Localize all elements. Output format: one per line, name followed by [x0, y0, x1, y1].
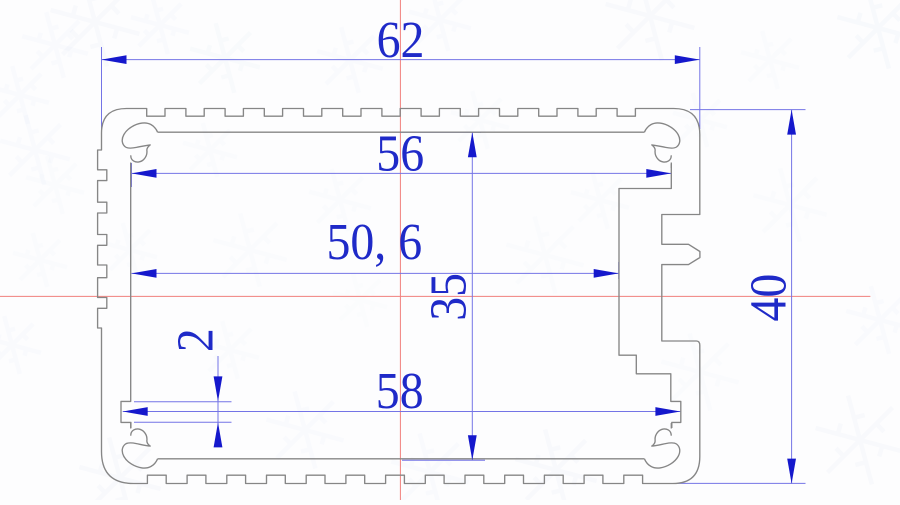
- screw boss bottom-left: [122, 423, 157, 468]
- arrow 40 top: [787, 110, 796, 135]
- arrow 2 top: [214, 376, 223, 401]
- arrow 58 right: [655, 407, 680, 416]
- profile inner walls, PCB slots and wall steps: [121, 132, 681, 459]
- arrow 2 bottom: [214, 422, 223, 447]
- dim line 35: [471, 132, 473, 460]
- arrow 35 top: [468, 132, 477, 157]
- ext line 35 bottom: [402, 459, 485, 461]
- ext line 2 bottom: [134, 421, 232, 423]
- arrow 56 right: [646, 169, 671, 178]
- vertical red centerline: [399, 0, 401, 500]
- screw boss top-right: [644, 123, 679, 168]
- arrow 35 bottom: [468, 435, 477, 460]
- arrow 58 left: [123, 407, 148, 416]
- dim line 2: [217, 356, 219, 445]
- arrowheads: [102, 55, 797, 483]
- profile outer outline with cooling fins: [98, 109, 700, 484]
- arrow 50,6 left: [132, 269, 157, 278]
- ext line 40 top: [690, 109, 806, 111]
- dim line 40: [791, 110, 793, 484]
- ext line 2 top: [134, 401, 232, 403]
- dim line 56: [132, 172, 672, 174]
- ext line 62 left: [101, 47, 103, 131]
- svg-text:2: 2: [166, 328, 224, 352]
- ext line 56 left: [131, 163, 133, 187]
- dim line 58: [123, 411, 681, 413]
- ext line 62 right: [699, 47, 701, 129]
- arrow 40 bottom: [787, 459, 796, 484]
- svg-text:56: 56: [376, 124, 424, 182]
- dim line 50,6: [132, 272, 619, 274]
- ext line 50,6 right: [618, 262, 620, 279]
- svg-text:58: 58: [376, 361, 424, 419]
- dimension lines: [102, 47, 806, 484]
- svg-text:40: 40: [739, 274, 797, 322]
- ext line 35 top: [400, 131, 481, 133]
- screw boss bottom-right: [644, 423, 679, 468]
- arrow 62 right: [675, 55, 700, 64]
- arrow 62 left: [102, 55, 127, 64]
- ext line 40 bottom: [678, 482, 806, 484]
- screw boss top-left: [122, 123, 157, 168]
- dim line 62: [102, 59, 700, 61]
- horizontal red centerline: [0, 295, 870, 297]
- arrow 50,6 right: [594, 269, 619, 278]
- arrow 56 left: [132, 169, 157, 178]
- svg-text:50, 6: 50, 6: [326, 212, 422, 270]
- svg-text:62: 62: [377, 10, 425, 68]
- svg-text:35: 35: [419, 273, 477, 321]
